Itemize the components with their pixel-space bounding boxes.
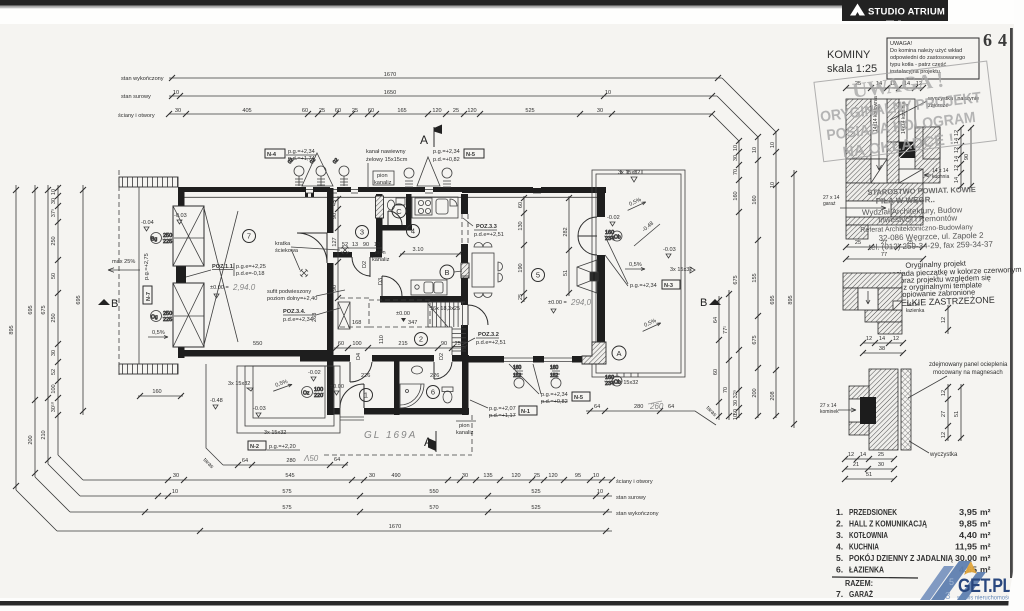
svg-text:52: 52 [342, 242, 348, 248]
svg-text:37⁵: 37⁵ [50, 209, 57, 218]
right wrap chamfer of top chains [712, 78, 776, 141]
Og 250/225 marker [151, 311, 205, 324]
right vertical chain x739 [732, 138, 742, 420]
entrance door swing [340, 384, 364, 408]
svg-text:100: 100 [352, 341, 361, 347]
section flag A bottom [424, 431, 436, 452]
svg-text:2,94.0: 2,94.0 [232, 283, 256, 292]
svg-text:165: 165 [397, 108, 406, 114]
svg-text:5: 5 [949, 577, 954, 587]
svg-text:N-4: N-4 [267, 152, 277, 158]
vent circle bottom x519 [513, 365, 524, 388]
chimney detail 2 (lazienka) [843, 273, 902, 288]
svg-text:serwis nieruchomości: serwis nieruchomości [957, 595, 1012, 602]
interior wall room3/chimney x376 [376, 194, 383, 253]
svg-text:żelowy 15x15cm: żelowy 15x15cm [366, 157, 408, 163]
svg-text:kuchnia: kuchnia [932, 174, 949, 180]
svg-text:10: 10 [752, 147, 758, 153]
svg-text:10: 10 [733, 145, 739, 151]
svg-text:60: 60 [302, 108, 308, 114]
stove burners [415, 198, 432, 215]
svg-text:ściekowa: ściekowa [275, 248, 299, 254]
svg-text:90: 90 [332, 285, 338, 291]
svg-text:60: 60 [335, 108, 341, 114]
svg-text:N-2: N-2 [250, 444, 259, 450]
flue kotlownia channel [871, 99, 887, 159]
svg-text:282: 282 [563, 227, 569, 236]
Ob marker 612,235 [605, 230, 622, 242]
svg-text:25⁰⁹: 25⁰⁹ [455, 340, 466, 347]
driveway retaining wall top (hatched) [119, 177, 178, 187]
bottom chain stan wykonczony y512 [70, 505, 612, 515]
svg-text:90: 90 [332, 213, 338, 219]
window opening top wall x351 [351, 186, 358, 193]
svg-text:10: 10 [173, 90, 179, 96]
svg-text:POZ.3.4.: POZ.3.4. [283, 309, 306, 315]
tilted watermark stamp [814, 61, 997, 164]
svg-text:KOTŁOWNIA: KOTŁOWNIA [849, 530, 888, 540]
vent circle x409 [404, 168, 414, 187]
svg-text:3: 3 [945, 591, 951, 602]
svg-text:-0.04: -0.04 [141, 220, 154, 226]
svg-text:675: 675 [41, 305, 47, 314]
svg-text:-0.03: -0.03 [663, 247, 676, 253]
svg-text:stan surowy: stan surowy [616, 495, 646, 501]
garage door panel 1 with X [173, 206, 204, 266]
floor drain hatched near stairs [461, 263, 469, 276]
svg-text:D4: D4 [356, 353, 362, 360]
svg-text:kanaliz: kanaliz [372, 257, 390, 263]
svg-text:RAZEM:: RAZEM: [845, 578, 873, 588]
property dashed line [118, 170, 120, 377]
vent circle x447 [442, 168, 452, 187]
svg-text:155: 155 [752, 273, 758, 282]
0.5% slope marks [148, 330, 168, 339]
N-5 box label top [464, 149, 484, 158]
fireplace room5 [577, 260, 598, 293]
garage door swing diagonals [204, 208, 238, 345]
svg-text:895: 895 [788, 295, 794, 304]
svg-text:225: 225 [163, 317, 172, 323]
dim 64 + 280-260 handwritten right of wing [586, 408, 668, 414]
svg-text:64: 64 [713, 317, 719, 323]
window opening top wall x425 [425, 186, 433, 193]
svg-text:695: 695 [770, 295, 776, 304]
svg-text:14: 14 [860, 452, 866, 458]
svg-text:mocowany na magnesach: mocowany na magnesach [933, 370, 1003, 376]
svg-text:30: 30 [462, 473, 468, 479]
svg-text:poziom dolny=+2,40: poziom dolny=+2,40 [267, 296, 317, 302]
svg-text:11,95: 11,95 [955, 542, 977, 552]
svg-text:p.d.=+0,82: p.d.=+0,82 [433, 157, 460, 163]
svg-text:3.: 3. [836, 530, 843, 540]
insulation panel strip [901, 369, 911, 450]
top chain stan wykonczony y78 [169, 72, 722, 81]
svg-text:ŁAZIENKA: ŁAZIENKA [849, 565, 884, 575]
shower bath [400, 384, 424, 408]
kitchen bottom wall [380, 296, 468, 303]
svg-text:6: 6 [431, 388, 435, 397]
svg-text:550: 550 [253, 341, 262, 347]
top chain sciany i otwory y114 [166, 108, 715, 117]
svg-text:525: 525 [531, 489, 540, 495]
rear terrace steps top [621, 170, 642, 174]
top scan edge bar [0, 0, 948, 6]
svg-text:3x 15x32: 3x 15x32 [228, 381, 250, 387]
svg-text:160: 160 [152, 389, 161, 395]
letter circle C [392, 204, 406, 218]
svg-text:3x 15x32: 3x 15x32 [670, 267, 692, 273]
room5 french doors to terrace [578, 217, 597, 255]
drain X marks [341, 246, 349, 254]
svg-text:PIŁA W WĘGR..: PIŁA W WĘGR.. [876, 195, 935, 206]
svg-text:-0.48: -0.48 [210, 398, 223, 404]
bottom chain stan surowy y496 [80, 489, 612, 499]
svg-text:160: 160 [752, 195, 758, 204]
svg-text:220: 220 [314, 393, 323, 399]
svg-text:60: 60 [338, 341, 344, 347]
kitchen sink top [436, 199, 448, 214]
svg-text:p.d.e=+2,34: p.d.e=+2,34 [283, 317, 313, 323]
section flag A top [420, 125, 442, 148]
svg-text:12: 12 [941, 390, 947, 396]
svg-text:120: 120 [432, 108, 441, 114]
svg-text:0,5%: 0,5% [152, 330, 165, 336]
svg-text:545: 545 [285, 473, 294, 479]
svg-text:152: 152 [550, 373, 559, 379]
detail1 bottom dims [843, 240, 926, 250]
chimney detail 3 (kominek) [869, 369, 898, 450]
svg-text:200: 200 [752, 388, 758, 397]
svg-text:B: B [111, 298, 118, 310]
svg-text:525: 525 [525, 108, 534, 114]
svg-text:p.g.=+2,20: p.g.=+2,20 [269, 444, 296, 450]
svg-text:p.g.=+2,34: p.g.=+2,34 [630, 283, 657, 289]
svg-text:1650: 1650 [384, 90, 396, 96]
dark insert [860, 397, 876, 424]
second faint stamp [879, 257, 1022, 309]
svg-text:m²: m² [980, 519, 991, 529]
right vertical chain x794 (895 total) [788, 170, 797, 428]
dining table room5 [472, 243, 503, 298]
wc C east wall [406, 194, 412, 230]
svg-text:ściany i otwory: ściany i otwory [616, 479, 653, 485]
N-2 label [248, 441, 300, 450]
svg-text:152: 152 [513, 373, 522, 379]
svg-text:208: 208 [770, 391, 776, 400]
Ob marker 612,380 [605, 375, 622, 387]
svg-text:90: 90 [964, 154, 970, 160]
room5 bottom wall [462, 356, 606, 363]
svg-text:25: 25 [319, 108, 325, 114]
svg-text:120: 120 [548, 473, 557, 479]
svg-text:sufit podwieszony: sufit podwieszony [267, 289, 311, 295]
cleanout box kuchnia [899, 169, 923, 183]
section marker B right [700, 297, 721, 309]
bottom chain sciany i otwory y480 [83, 473, 615, 483]
chimney hatched in wall x376 [376, 196, 384, 218]
svg-text:B: B [700, 297, 707, 309]
svg-text:A: A [616, 349, 621, 358]
svg-text:7: 7 [247, 232, 251, 241]
front terrace dim 64-280-64 [223, 458, 348, 468]
svg-text:130: 130 [518, 221, 524, 230]
room3 south wall [333, 252, 352, 258]
letter circle B [440, 265, 454, 279]
svg-text:25: 25 [518, 294, 524, 300]
svg-text:50: 50 [51, 273, 57, 279]
left vertical chain x83 (695 short) [76, 185, 86, 415]
svg-text:675: 675 [752, 335, 758, 344]
svg-text:1.: 1. [836, 507, 843, 517]
svg-text:A: A [420, 133, 428, 147]
svg-text:895: 895 [9, 325, 15, 334]
dims near room3 door [338, 242, 382, 248]
svg-text:ściany i otwory: ściany i otwory [118, 113, 155, 119]
svg-text:3.10: 3.10 [413, 247, 424, 253]
svg-text:m²: m² [980, 542, 991, 552]
svg-text:p.g.=+2,07: p.g.=+2,07 [489, 406, 516, 412]
door D2 hall to bath [434, 362, 452, 379]
kitchen lower counter with sinks [411, 280, 447, 295]
svg-text:1670: 1670 [389, 524, 401, 530]
svg-text:4,40: 4,40 [959, 530, 977, 540]
svg-text:27: 27 [941, 411, 947, 417]
svg-text:405: 405 [242, 108, 251, 114]
svg-text:30: 30 [597, 108, 603, 114]
main block bottom wall west part [300, 355, 340, 362]
exterior top wall [178, 187, 606, 192]
POZ.3.4 label [283, 308, 340, 323]
svg-text:garaż: garaż [823, 201, 836, 207]
wc C fixtures [387, 200, 394, 210]
svg-text:p.g.e=+2,25: p.g.e=+2,25 [236, 264, 266, 270]
svg-text:stan wykończony: stan wykończony [616, 511, 659, 517]
top chain stan surowy y96 [169, 90, 717, 99]
svg-text:7.: 7. [836, 589, 843, 599]
svg-text:3x 15x32: 3x 15x32 [618, 170, 640, 176]
door D4 hall to room1 [350, 362, 372, 382]
svg-text:226: 226 [430, 373, 439, 379]
svg-text:695: 695 [28, 305, 34, 314]
driveway retaining wall bottom (hatched) [119, 364, 178, 374]
svg-text:51: 51 [954, 411, 960, 417]
svg-text:135: 135 [483, 473, 492, 479]
svg-text:550: 550 [429, 489, 438, 495]
svg-text:70: 70 [733, 169, 739, 175]
svg-text:200: 200 [28, 435, 34, 444]
svg-text:kanał nawiewny: kanał nawiewny [366, 149, 406, 155]
svg-text:64: 64 [594, 404, 600, 410]
svg-text:190: 190 [518, 263, 524, 272]
flue kominia channel [899, 99, 915, 142]
svg-text:575: 575 [282, 505, 291, 511]
roof vent triangle 2 [417, 157, 440, 186]
svg-text:575: 575 [282, 489, 291, 495]
svg-text:14: 14 [879, 336, 885, 342]
svg-text:D2: D2 [439, 353, 445, 360]
detail1 top dim [843, 81, 926, 91]
svg-text:30: 30 [733, 155, 739, 161]
detail3 right dims [941, 384, 951, 441]
STUDIO ATRIUM logo [842, 0, 948, 21]
svg-text:p.g.=+2,34: p.g.=+2,34 [433, 149, 460, 155]
POZ.1.1 label [186, 263, 266, 277]
svg-text:77¹: 77¹ [723, 326, 729, 334]
svg-text:pion: pion [377, 173, 388, 179]
room5 right wall [597, 188, 605, 217]
svg-text:Do komina należy użyć wkład: Do komina należy użyć wkład [890, 48, 962, 54]
svg-text:347: 347 [408, 320, 417, 326]
svg-text:D2: D2 [362, 261, 368, 268]
room5 interior dim chain x569 [563, 195, 572, 296]
svg-text:-0.02: -0.02 [607, 215, 620, 221]
svg-text:6.: 6. [836, 565, 843, 575]
svg-text:10: 10 [172, 489, 178, 495]
vent circle x321 [309, 157, 326, 186]
svg-text:B: B [444, 268, 449, 277]
svg-text:100: 100 [51, 384, 57, 393]
right short chains x719 x729 [713, 296, 722, 420]
svg-text:280: 280 [634, 404, 643, 410]
cleanout box 1 [871, 159, 887, 183]
svg-text:30: 30 [51, 198, 57, 204]
interior dim chain x338 [332, 196, 341, 301]
svg-text:77: 77 [881, 252, 887, 258]
svg-text:N-5: N-5 [574, 395, 583, 401]
front terrace left edge [206, 364, 223, 465]
pion kanaliz labels [373, 171, 394, 186]
chimney in room5 left wall (hatched) [461, 264, 469, 278]
bottom-left wrap chamfers [16, 455, 83, 531]
office stamp text [859, 185, 993, 252]
svg-text:160: 160 [550, 365, 559, 371]
svg-text:12: 12 [893, 336, 899, 342]
svg-text:3: 3 [360, 228, 364, 237]
svg-text:Ob: Ob [614, 380, 621, 386]
washbasin [412, 366, 423, 374]
svg-text:14: 14 [954, 177, 960, 183]
flue arrows + rotated labels [877, 104, 882, 170]
svg-text:64: 64 [242, 458, 248, 464]
window opening room5 bottom wall x544 [544, 355, 572, 364]
svg-text:łazienka: łazienka [906, 308, 925, 314]
POZ.3.2 [462, 332, 506, 346]
svg-text:±0.00: ±0.00 [330, 384, 344, 390]
vent circle x299 [287, 157, 304, 186]
svg-text:490: 490 [391, 473, 400, 479]
svg-text:wyczystka: wyczystka [929, 452, 958, 458]
svg-text:10: 10 [770, 182, 776, 188]
front terrace steps [237, 366, 340, 433]
svg-text:zdejmowany panel ocieplenia: zdejmowany panel ocieplenia [929, 362, 1008, 368]
svg-text:30: 30 [878, 462, 884, 468]
dashed overhang line under wing [324, 454, 472, 456]
svg-text:25: 25 [878, 452, 884, 458]
svg-text:5.: 5. [836, 553, 843, 563]
svg-text:263: 263 [312, 313, 318, 322]
svg-text:kratka: kratka [275, 241, 291, 247]
svg-text:p.g.=+2,34: p.g.=+2,34 [541, 392, 568, 398]
room number circles [243, 230, 256, 243]
svg-text:Λ50: Λ50 [303, 454, 319, 463]
chimney detail 1: hatched masonry [846, 99, 871, 159]
leader B to chimney [454, 271, 462, 272]
svg-text:210: 210 [41, 430, 47, 439]
svg-text:16x 18,3x25: 16x 18,3x25 [430, 306, 460, 312]
svg-text:25: 25 [534, 473, 540, 479]
svg-text:UWAGA!: UWAGA! [890, 41, 913, 47]
bottom scan edge line [0, 601, 1014, 606]
hall side of room5 wall lower [461, 300, 468, 305]
corner chimney hatched room5 SE [582, 342, 606, 364]
dim 160 driveway [137, 389, 184, 399]
svg-text:250: 250 [51, 236, 57, 245]
bottom wing left wall [327, 355, 334, 415]
Oz 100/220 marker [302, 387, 324, 400]
bottom wing top wall [333, 355, 350, 362]
svg-text:90: 90 [441, 341, 447, 347]
svg-text:POKÓJ DZIENNY Z JADALNIĄ: POKÓJ DZIENNY Z JADALNIĄ [849, 552, 953, 563]
garage bottom wall [178, 350, 332, 357]
svg-text:stan wykończony: stan wykończony [121, 76, 164, 82]
room5 interior dim chain x524 [518, 195, 527, 303]
N-4 box label [265, 149, 285, 158]
svg-text:294,0: 294,0 [570, 298, 592, 307]
svg-text:Ob: Ob [614, 235, 621, 241]
svg-text:280: 280 [286, 458, 295, 464]
svg-text:±0.00 =: ±0.00 = [548, 300, 567, 306]
window opening top wall x533 [533, 186, 541, 193]
svg-text:max 25%: max 25% [112, 259, 135, 265]
wardrobe hall [338, 302, 350, 329]
exterior left wall (garage) [178, 188, 185, 210]
svg-text:12: 12 [848, 452, 854, 458]
svg-text:N-7: N-7 [146, 292, 152, 301]
svg-text:10: 10 [605, 90, 611, 96]
svg-text:GL 169A: GL 169A [364, 430, 417, 441]
svg-text:pion: pion [375, 250, 386, 256]
letter circle A [612, 346, 626, 360]
bottom chain total 1670 y531 [57, 524, 612, 534]
left vertical chain x35 (695) [28, 185, 38, 477]
toilet [442, 387, 453, 403]
door from boiler room to garage [297, 233, 327, 263]
GET.PL watermark logo [920, 561, 1013, 602]
svg-text:12: 12 [941, 317, 947, 323]
bottom wing right wall [462, 355, 469, 415]
rear terrace double outline [592, 170, 685, 377]
garage flue channel [846, 201, 891, 217]
svg-text:-0.02: -0.02 [308, 370, 321, 376]
svg-text:695: 695 [76, 295, 82, 304]
svg-text:KOMINY: KOMINY [827, 49, 871, 61]
window opening top wall x306 [306, 186, 313, 193]
svg-text:12: 12 [941, 432, 947, 438]
left vertical chain x58 (segments) [50, 185, 61, 455]
svg-text:0,5%: 0,5% [629, 262, 642, 268]
svg-text:Bg: Bg [151, 237, 157, 243]
svg-text:160: 160 [733, 191, 739, 200]
svg-text:38: 38 [879, 346, 885, 352]
svg-text:13: 13 [374, 242, 380, 248]
svg-text:PRZEDSIONEK: PRZEDSIONEK [849, 507, 898, 517]
garage door panel 2 with X [173, 283, 204, 347]
svg-text:N-3: N-3 [664, 283, 673, 289]
svg-text:D3: D3 [378, 278, 384, 285]
paper corner bottom right [1008, 552, 1024, 611]
svg-text:p.g.=+2,34: p.g.=+2,34 [288, 149, 315, 155]
